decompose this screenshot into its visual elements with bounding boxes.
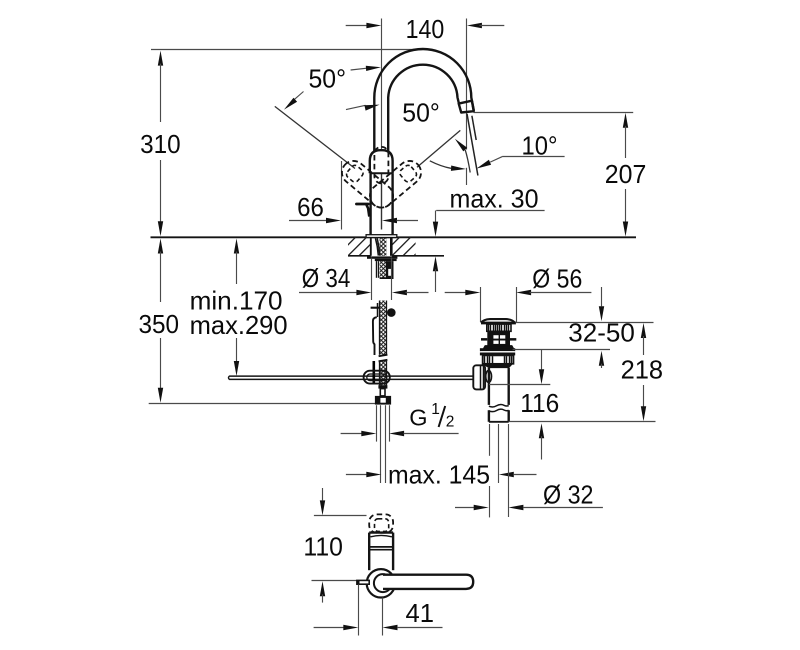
water stream line left bbox=[467, 114, 478, 176]
pipe extension lines bbox=[490, 424, 509, 517]
extension lines diam 34 bbox=[372, 258, 392, 301]
svg-text:10°: 10° bbox=[522, 130, 558, 160]
deck underside line bbox=[348, 255, 444, 257]
reference line rod level bbox=[489, 384, 550, 386]
reference line basin bottom bbox=[513, 349, 610, 351]
spout gooseneck inner contour bbox=[388, 65, 459, 151]
braided hose in deck hole bbox=[380, 238, 387, 256]
arc 50 deg lower with arrow bbox=[430, 161, 466, 171]
drain taper band bbox=[484, 346, 513, 348]
label 10 deg with leader bbox=[476, 130, 564, 168]
drain flange lower bbox=[480, 353, 515, 356]
svg-text:50°: 50° bbox=[309, 64, 347, 94]
bottom view bottom reference line bbox=[312, 580, 357, 582]
aerator key tab bbox=[356, 204, 369, 217]
counter top line bbox=[151, 236, 637, 238]
drain centerline bbox=[498, 424, 500, 483]
svg-text:G: G bbox=[409, 405, 427, 431]
svg-text:2: 2 bbox=[446, 414, 455, 431]
base flange bbox=[366, 235, 397, 238]
supply pipe lines bbox=[381, 405, 386, 483]
svg-text:41: 41 bbox=[406, 598, 435, 628]
shank left edge lines bbox=[377, 261, 379, 278]
dimension 140 bbox=[346, 14, 505, 44]
svg-text:Ø 56: Ø 56 bbox=[532, 264, 582, 294]
lever wing dashed left bbox=[337, 156, 398, 212]
reference line tailpipe end bbox=[509, 421, 656, 423]
mounting washer bbox=[367, 256, 397, 258]
arc 50 deg upper with arrow bbox=[455, 139, 470, 173]
dimension 32-50 bbox=[568, 287, 635, 368]
spout gooseneck outer contour bbox=[374, 49, 474, 151]
lever wing dashed right bbox=[365, 156, 426, 212]
dimension min.170 max.290 bbox=[190, 239, 288, 377]
drain flange upper bbox=[480, 348, 515, 351]
dimension 207 bbox=[605, 113, 647, 237]
side view pivot outer circle bbox=[367, 569, 395, 597]
leader 50 deg to pipe lower bbox=[346, 105, 380, 111]
deck hatching right bbox=[381, 237, 433, 256]
svg-text:1: 1 bbox=[431, 401, 440, 418]
dimension diam 34 bbox=[299, 263, 429, 295]
shank bottom cap bbox=[380, 277, 394, 279]
svg-text:116: 116 bbox=[520, 388, 559, 418]
extension lines G half bbox=[377, 405, 390, 441]
svg-text:310: 310 bbox=[140, 129, 181, 159]
drain plug dome bbox=[481, 319, 516, 323]
label 50 deg spout bbox=[402, 98, 440, 128]
svg-text:max. 145: max. 145 bbox=[388, 459, 490, 489]
dimension 218 bbox=[621, 323, 664, 421]
shank braided section bbox=[380, 261, 387, 278]
lever knob solid bbox=[370, 150, 393, 173]
hose retaining tick bbox=[371, 307, 380, 309]
svg-text:Ø 32: Ø 32 bbox=[543, 479, 594, 509]
extension lines 41 bbox=[359, 585, 383, 636]
dimension 41 bbox=[314, 598, 443, 630]
extension line right (spout outlet, 140 dim) bbox=[466, 19, 468, 186]
hose end cap bbox=[378, 385, 387, 388]
braided hose lower section bbox=[380, 361, 387, 385]
side view lever bar bbox=[374, 574, 473, 592]
drain knurl band upper bbox=[487, 324, 511, 331]
dimension G half bbox=[341, 401, 459, 436]
tailpipe end line bbox=[489, 421, 509, 423]
dimension max. 145 bbox=[346, 459, 537, 489]
reference line basin top bbox=[516, 322, 654, 324]
svg-text:max. 30: max. 30 bbox=[450, 184, 539, 214]
bottom view top reference line bbox=[314, 515, 367, 517]
svg-text:110: 110 bbox=[303, 531, 343, 561]
label max. 30 with arrows bbox=[433, 184, 545, 293]
extension line left (faucet centerline, 140 dim) bbox=[381, 19, 383, 230]
reference line spout outlet height bbox=[474, 112, 634, 114]
diagonal lever axis line left bbox=[275, 106, 355, 168]
svg-text:Ø 34: Ø 34 bbox=[302, 263, 351, 293]
spout aerator nozzle bbox=[459, 101, 474, 113]
deck hole edges bbox=[371, 237, 392, 256]
rod guide bar bbox=[372, 361, 375, 384]
mounting nut bbox=[375, 259, 397, 261]
tailpipe break bbox=[489, 404, 509, 411]
dimension diam 32 bbox=[455, 479, 603, 510]
dimension 310 bbox=[140, 51, 181, 237]
shank right fitting bbox=[386, 261, 394, 277]
leader 50 deg to pipe upper bbox=[351, 66, 381, 71]
deck hatching left bbox=[337, 237, 389, 256]
hose break marks bbox=[379, 355, 388, 362]
drain body taper bbox=[483, 364, 512, 368]
dimension 110 bbox=[303, 488, 343, 603]
drain side ticks bbox=[481, 338, 516, 341]
dimension 66 bbox=[289, 192, 418, 223]
extension lines diam 56 bbox=[481, 287, 517, 322]
lever knob ghost dashed bbox=[374, 147, 388, 183]
svg-text:50°: 50° bbox=[402, 98, 440, 128]
drain knurled ring bbox=[483, 355, 514, 363]
rod clip oval bbox=[364, 371, 390, 384]
drain tailpipe bbox=[489, 368, 509, 422]
dimension 350 bbox=[139, 239, 180, 403]
leader 50 deg to diagonal bbox=[284, 92, 304, 110]
pop-up rod bbox=[228, 376, 473, 379]
drain neck with windows bbox=[487, 331, 510, 346]
svg-text:350: 350 bbox=[139, 309, 180, 339]
svg-text:140: 140 bbox=[406, 14, 445, 44]
svg-text:66: 66 bbox=[297, 192, 324, 222]
side view lever cap dashed bbox=[369, 514, 393, 532]
rod clevis bbox=[473, 365, 491, 389]
dimension diam 56 bbox=[445, 264, 592, 296]
hose curve in deck hole bbox=[375, 238, 379, 255]
hose hex nut bbox=[375, 396, 391, 405]
reference line spout top bbox=[151, 49, 423, 51]
faucet body bbox=[371, 173, 393, 235]
side view body bbox=[369, 533, 393, 571]
hose ball detail bbox=[387, 308, 396, 317]
hose end nipple bbox=[380, 389, 385, 396]
diagonal lever axis line right bbox=[417, 130, 460, 167]
svg-text:max.290: max.290 bbox=[190, 310, 288, 340]
svg-text:207: 207 bbox=[605, 159, 647, 189]
extension line lever tip bbox=[341, 161, 343, 230]
label 50 deg lever bbox=[309, 64, 347, 94]
braided hose mid section bbox=[380, 301, 387, 355]
drain flange gap bbox=[481, 351, 515, 352]
svg-text:32-50: 32-50 bbox=[568, 317, 635, 347]
water stream line right bbox=[472, 116, 476, 140]
reference line hose end (350 bottom) bbox=[149, 403, 376, 405]
dimension 116 bbox=[520, 350, 559, 460]
side view temperature tab bbox=[357, 580, 369, 584]
svg-text:218: 218 bbox=[621, 355, 664, 385]
hose clip wire bbox=[373, 303, 378, 355]
